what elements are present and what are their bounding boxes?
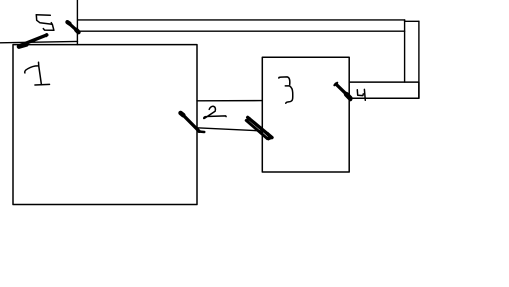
channel 2 bottom line [197,128,262,131]
arrow A near label 5 [19,34,48,47]
channel 2 top line [197,100,262,102]
label 2 [204,106,226,118]
label 5 [36,15,54,30]
label 4 [357,89,365,100]
wire inner vertical [404,20,406,82]
label 3 [279,77,293,103]
arrow B at wire junction [67,22,78,32]
block 3 box [262,57,349,172]
arrow C at block 1 right edge [181,113,205,132]
arrow E at block 3 right edge [334,83,350,100]
block 4 box [350,82,419,98]
block 1 box [13,45,197,205]
wire left vertical [76,0,78,45]
wire top line [78,20,419,21]
arrow D at block 3 left edge [246,117,272,138]
wire bottom line [78,30,405,32]
wire outer vertical [418,21,420,98]
wire left horizontal [0,41,78,42]
label 1 [25,62,50,85]
